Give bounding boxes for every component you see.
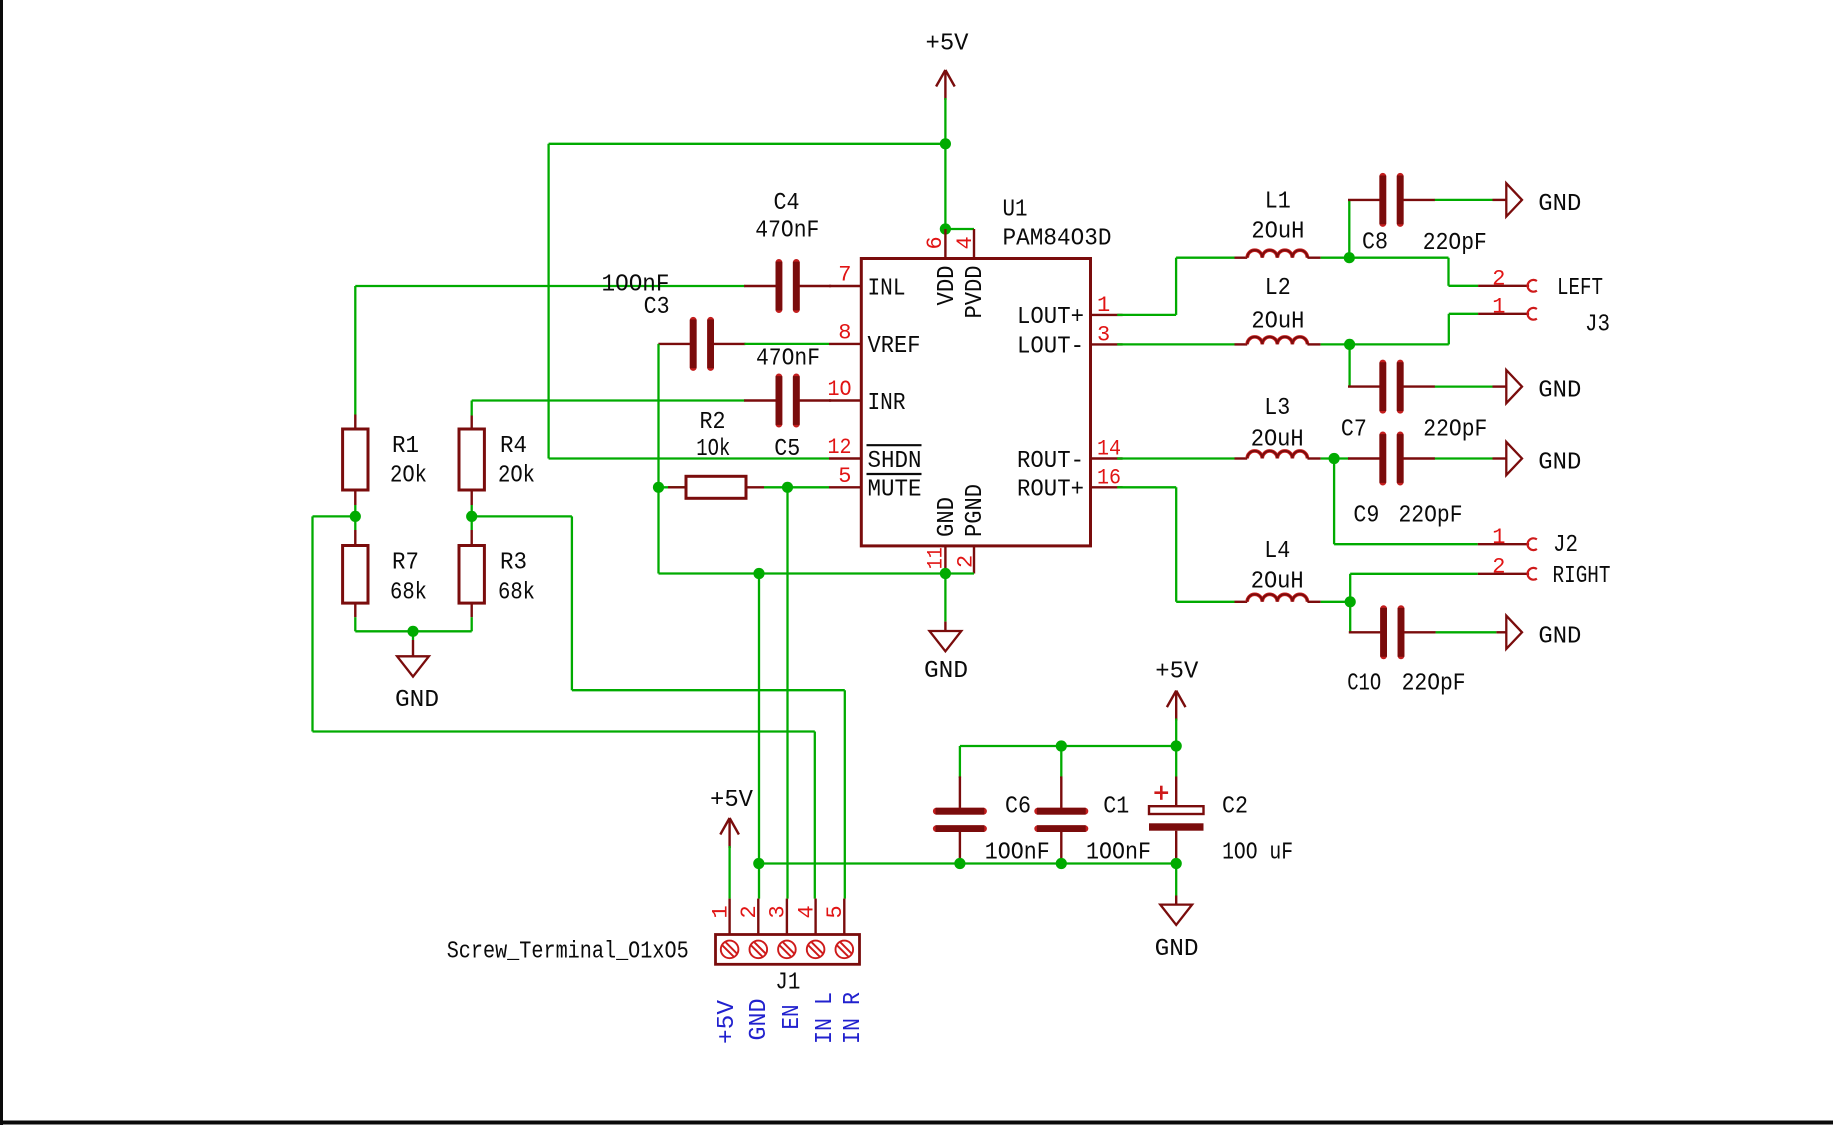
ground flag C8 xyxy=(1493,183,1523,216)
C1 reference label xyxy=(1103,793,1129,820)
wire RIGHT corner up xyxy=(1349,574,1351,602)
C10 value 220pF xyxy=(1402,671,1466,698)
resistor R1 xyxy=(343,415,368,517)
R4 reference label xyxy=(500,433,527,460)
svg-text:LOUT+: LOUT+ xyxy=(1017,304,1084,331)
svg-text:6: 6 xyxy=(923,236,948,249)
C5 reference label xyxy=(774,436,800,463)
svg-text:3: 3 xyxy=(1097,322,1110,347)
wire C7 drop xyxy=(1348,344,1350,386)
wire +5V rail to SHDN pullup (horizontal) xyxy=(549,143,946,145)
svg-text:C2: C2 xyxy=(1222,793,1248,820)
L2 reference label xyxy=(1265,275,1291,302)
wire C10 to GND flag xyxy=(1436,631,1497,633)
J1 pin 3 lead xyxy=(766,899,791,935)
wire drop to J1 pin 4 xyxy=(814,732,816,899)
svg-text:2: 2 xyxy=(737,905,762,918)
svg-text:2OuH: 2OuH xyxy=(1251,309,1304,336)
resistor R3 xyxy=(459,530,484,617)
svg-text:C4: C4 xyxy=(774,190,800,217)
svg-text:L4: L4 xyxy=(1264,538,1290,565)
capacitor C8 xyxy=(1348,176,1435,225)
junction R1/R7 node xyxy=(350,511,361,522)
wire R4 node right xyxy=(472,515,572,517)
U1 pin 5 MUTE xyxy=(829,464,922,504)
junction L2 output xyxy=(1344,339,1355,350)
C9 value 220pF xyxy=(1399,502,1463,529)
C8 reference label xyxy=(1362,229,1388,256)
svg-text:VDD: VDD xyxy=(934,266,961,306)
svg-text:ROUT-: ROUT- xyxy=(1017,448,1084,475)
op-amp U1 PAM8403D body xyxy=(861,259,1090,546)
wire C6 top drop xyxy=(959,746,961,778)
svg-text:GND: GND xyxy=(934,497,961,537)
U1 pin 16 ROUT+ xyxy=(1017,465,1123,503)
wire R1 node horizontal to IN R? (y=731) xyxy=(313,730,815,732)
svg-text:C1: C1 xyxy=(1103,793,1129,820)
svg-text:INL: INL xyxy=(868,275,906,302)
C2 GND label xyxy=(1155,936,1199,963)
power symbol +5V (bottom right) xyxy=(1155,659,1198,721)
connector J1 reference xyxy=(775,969,800,996)
svg-text:8: 8 xyxy=(838,320,851,345)
svg-text:EN: EN xyxy=(779,1005,806,1030)
wire MUTE to U1 xyxy=(788,486,830,488)
wire L2 junction right xyxy=(1350,343,1449,345)
svg-text:R7: R7 xyxy=(392,550,419,577)
svg-text:1: 1 xyxy=(1492,525,1505,550)
C3 value 100nF xyxy=(602,271,670,298)
svg-text:PGND: PGND xyxy=(962,484,989,537)
junction C1 bottom xyxy=(1056,858,1067,869)
wire R3 to GND node xyxy=(413,630,472,632)
junction C2 top xyxy=(1171,740,1182,751)
wire C8 drop xyxy=(1348,200,1350,258)
L3 value 20uH xyxy=(1251,427,1304,454)
svg-text:L3: L3 xyxy=(1264,395,1290,422)
wire ROUT- from pin xyxy=(1117,457,1234,459)
L4 reference label xyxy=(1264,538,1290,565)
svg-text:+5V: +5V xyxy=(710,787,753,814)
wire SHDN pullup vertical xyxy=(547,144,549,459)
wire +5V stem to junction xyxy=(944,98,946,144)
svg-text:C8: C8 xyxy=(1362,229,1388,256)
svg-text:R1: R1 xyxy=(392,433,419,460)
C8 GND label xyxy=(1538,191,1581,218)
U1 pin 4 PVDD xyxy=(953,229,989,319)
wire L3 to junction xyxy=(1321,457,1335,459)
wire L3 junction down xyxy=(1333,459,1335,545)
net label LEFT xyxy=(1557,275,1603,302)
J1 screw 3 xyxy=(778,941,796,959)
J1 value Screw_Terminal_01x05 xyxy=(447,939,689,966)
junction L4 output xyxy=(1345,596,1356,607)
C4 reference label xyxy=(774,190,800,217)
J1 net label EN xyxy=(779,1005,806,1030)
svg-text:1Ok: 1Ok xyxy=(696,436,730,463)
svg-text:5: 5 xyxy=(838,464,851,489)
wire LOUT+ up xyxy=(1175,258,1177,315)
C5 value 470nF xyxy=(756,345,820,372)
C7 value 220pF xyxy=(1423,417,1487,444)
wire LOUT+ to L1 xyxy=(1176,257,1235,259)
junction VDD/PVDD pins xyxy=(940,223,951,234)
junction GND rail / J1 pin2 xyxy=(753,858,764,869)
U1 value label PAM8403D xyxy=(1003,226,1112,253)
sheet border (left edge) xyxy=(0,0,3,1125)
inductor L1 xyxy=(1235,250,1321,258)
wire L2 to junction xyxy=(1321,343,1350,345)
svg-text:2Ok: 2Ok xyxy=(390,463,427,490)
connector J3 reference xyxy=(1585,312,1610,339)
wire LOUT+ from pin xyxy=(1117,314,1176,316)
svg-text:+5V: +5V xyxy=(1155,659,1198,686)
wire L4 to junction xyxy=(1321,601,1351,603)
wire to J3 pin2 xyxy=(1449,285,1479,287)
svg-text:1: 1 xyxy=(1097,293,1110,318)
svg-text:ROUT+: ROUT+ xyxy=(1017,477,1084,504)
junction L1 output xyxy=(1344,252,1355,263)
svg-text:68k: 68k xyxy=(498,580,535,607)
R3 reference label xyxy=(500,550,527,577)
svg-text:INR: INR xyxy=(868,390,906,417)
svg-text:SHDN: SHDN xyxy=(868,448,922,475)
wire C7 to GND flag xyxy=(1435,385,1493,387)
svg-text:R2: R2 xyxy=(700,409,726,436)
svg-text:7: 7 xyxy=(838,263,851,288)
svg-text:2: 2 xyxy=(954,555,979,568)
capacitor C5 xyxy=(744,376,831,425)
net label RIGHT xyxy=(1553,563,1611,590)
svg-text:PAM84O3D: PAM84O3D xyxy=(1003,226,1112,253)
C6 value 100nF xyxy=(985,839,1050,866)
resistor R4 xyxy=(459,416,484,517)
svg-text:J3: J3 xyxy=(1585,312,1610,339)
svg-text:GND: GND xyxy=(395,687,439,714)
wire to J2 pin2 xyxy=(1350,573,1478,575)
junction GND row / U1 pins xyxy=(940,568,951,579)
wire GND row under U1 xyxy=(659,572,975,574)
svg-text:1: 1 xyxy=(708,905,733,918)
R2 value 10k xyxy=(696,436,730,463)
connector J3 pin 1 xyxy=(1478,295,1537,320)
power symbol +5V (top) xyxy=(926,31,969,101)
L2 value 20uH xyxy=(1251,309,1304,336)
ground flag C10 xyxy=(1496,616,1522,649)
wire R7 bottom drop xyxy=(354,617,356,631)
wire to J3 pin1 xyxy=(1449,313,1478,315)
svg-text:22OpF: 22OpF xyxy=(1423,230,1487,257)
U1 pin 3 LOUT- xyxy=(1017,322,1123,360)
connector J2 reference xyxy=(1553,532,1578,559)
U1 pin 8 VREF xyxy=(829,320,921,360)
svg-text:J1: J1 xyxy=(775,969,800,996)
svg-text:R4: R4 xyxy=(500,433,527,460)
wire C1 top drop xyxy=(1060,746,1062,778)
svg-text:11: 11 xyxy=(924,547,949,569)
ground flag C9 xyxy=(1493,442,1523,475)
wire SHDN row xyxy=(549,457,829,459)
junction C1 top xyxy=(1056,740,1067,751)
J1 screw 1 xyxy=(721,941,739,959)
C6 reference label xyxy=(1005,793,1031,820)
ground divider GND xyxy=(397,640,429,677)
C4 value 470nF xyxy=(755,217,819,244)
svg-text:C7: C7 xyxy=(1341,417,1367,444)
svg-text:1OO uF: 1OO uF xyxy=(1222,839,1293,866)
svg-text:U1: U1 xyxy=(1003,197,1028,224)
wire INR row xyxy=(472,399,746,401)
wire LOUT- from pin xyxy=(1117,343,1234,345)
wire R4 node horizontal (y=690) xyxy=(572,689,845,691)
L1 reference label xyxy=(1265,189,1291,216)
svg-text:4: 4 xyxy=(794,905,819,918)
C7 GND label xyxy=(1538,378,1581,405)
junction R2 right / EN net xyxy=(782,482,793,493)
C8 value 220pF xyxy=(1423,230,1487,257)
C2 reference label xyxy=(1222,793,1248,820)
svg-text:L1: L1 xyxy=(1265,189,1291,216)
svg-text:LOUT-: LOUT- xyxy=(1017,334,1084,361)
svg-text:GND: GND xyxy=(1155,936,1199,963)
wire R3 bottom drop xyxy=(471,617,473,631)
junction R4/R3 node xyxy=(466,511,477,522)
U1 reference label xyxy=(1003,197,1028,224)
wire +5V rail (y=746) xyxy=(960,745,1176,747)
junction divider GND node xyxy=(407,626,418,637)
J1 net label +5V xyxy=(714,1000,741,1044)
wire C3-R2 vertical xyxy=(657,344,659,574)
svg-text:2: 2 xyxy=(1492,555,1505,580)
svg-text:C6: C6 xyxy=(1005,793,1031,820)
wire C2 GND stem xyxy=(1175,864,1177,896)
C9 GND label xyxy=(1538,450,1581,477)
junction +5V / VDD node xyxy=(940,138,951,149)
wire INL row xyxy=(355,285,745,287)
svg-text:GND: GND xyxy=(1538,378,1581,405)
C7 reference label xyxy=(1341,417,1367,444)
divider GND label xyxy=(395,687,439,714)
capacitor C2 (polarized) xyxy=(1149,777,1204,864)
U1 pin 6 VDD xyxy=(923,229,961,306)
inductor L3 xyxy=(1235,451,1321,459)
wire R4-R3 link xyxy=(471,516,473,530)
wire ROUT+ to L4 xyxy=(1176,601,1234,603)
J1 pin 4 lead xyxy=(794,899,819,935)
L4 value 20uH xyxy=(1251,568,1304,595)
J1 net label IN R xyxy=(840,992,867,1044)
wire EN vertical to J1 pin3 xyxy=(786,487,788,898)
svg-text:47OnF: 47OnF xyxy=(756,345,820,372)
wire drop to J1 pin 5 xyxy=(844,690,846,898)
svg-text:L2: L2 xyxy=(1265,275,1291,302)
svg-text:C9: C9 xyxy=(1353,502,1379,529)
capacitor C9 xyxy=(1348,434,1435,483)
wire L1 junction to LEFT corner xyxy=(1349,257,1448,259)
svg-text:C1O: C1O xyxy=(1347,671,1381,698)
wire ROUT+ from pin xyxy=(1117,486,1176,488)
wire divider GND stem xyxy=(412,631,414,640)
J1 screw 4 xyxy=(807,941,825,959)
wire GND rail (y=863.5) xyxy=(759,862,1176,864)
J1 pin 2 lead xyxy=(737,899,762,935)
wire C2 top drop xyxy=(1175,746,1177,777)
wire C8 to GND flag xyxy=(1435,199,1493,201)
resistor R2 xyxy=(659,476,788,498)
svg-text:4: 4 xyxy=(953,236,978,249)
resistor R7 xyxy=(343,530,368,617)
J1 screw 5 xyxy=(836,941,854,959)
svg-text:GND: GND xyxy=(1538,191,1581,218)
wire ROUT+ down xyxy=(1175,487,1177,602)
junction C2 bottom xyxy=(1171,858,1182,869)
U1 pin 11 GND xyxy=(924,497,961,574)
R7 reference label xyxy=(392,550,419,577)
wire +5V to J1 pin1 xyxy=(728,846,730,899)
svg-text:MUTE: MUTE xyxy=(868,477,922,504)
wire +5V bottom stem xyxy=(1175,719,1177,747)
inductor L2 xyxy=(1235,337,1321,345)
wire R1 node vertical (x=312) xyxy=(311,516,313,731)
wire VDD junction to PVDD pin xyxy=(945,228,974,230)
svg-text:2OuH: 2OuH xyxy=(1251,568,1304,595)
svg-text:RIGHT: RIGHT xyxy=(1553,563,1611,590)
svg-text:2OuH: 2OuH xyxy=(1251,219,1304,246)
svg-text:+5V: +5V xyxy=(926,31,969,58)
wire C9 to GND flag xyxy=(1435,457,1493,459)
U1 pin 14 ROUT- xyxy=(1017,437,1123,475)
svg-text:PVDD: PVDD xyxy=(962,266,989,319)
connector J2 pin 2 (RIGHT) xyxy=(1478,555,1537,580)
connector J2 pin 1 xyxy=(1478,525,1537,550)
svg-text:Screw_Terminal_O1xO5: Screw_Terminal_O1xO5 xyxy=(447,939,689,966)
svg-text:C3: C3 xyxy=(644,294,670,321)
J1 pin 5 lead xyxy=(823,899,848,935)
capacitor C10 xyxy=(1349,608,1436,657)
svg-text:22OpF: 22OpF xyxy=(1402,671,1466,698)
wire R1-R7 link xyxy=(354,516,356,530)
wire LEFT corner down xyxy=(1447,258,1449,286)
wire J3 pin1 corner up xyxy=(1448,314,1450,345)
L1 value 20uH xyxy=(1251,219,1304,246)
ground flag C7 xyxy=(1493,370,1523,403)
wire J1 pin2 GND vertical xyxy=(758,574,760,899)
C1 value 100nF xyxy=(1086,839,1151,866)
power symbol +5V (J1 pin1) xyxy=(710,787,753,848)
junction GND row / J1 pin2 net xyxy=(753,568,764,579)
svg-text:2OuH: 2OuH xyxy=(1251,427,1304,454)
svg-text:VREF: VREF xyxy=(868,333,921,360)
svg-text:J2: J2 xyxy=(1553,532,1578,559)
capacitor C6 xyxy=(936,776,985,863)
J1 net label IN L xyxy=(812,992,839,1044)
svg-text:R3: R3 xyxy=(500,550,527,577)
R1 reference label xyxy=(392,433,419,460)
C10 reference label xyxy=(1347,671,1381,698)
capacitor C1 xyxy=(1037,776,1086,863)
svg-text:+5V: +5V xyxy=(714,1000,741,1044)
svg-text:GND: GND xyxy=(746,999,773,1041)
svg-text:47OnF: 47OnF xyxy=(755,217,819,244)
svg-text:GND: GND xyxy=(924,658,968,685)
U1 pin 10 INR xyxy=(828,377,906,417)
U1 GND label xyxy=(924,658,968,685)
wire C9 link xyxy=(1334,457,1349,459)
C3 reference label xyxy=(644,294,670,321)
svg-text:1O: 1O xyxy=(828,377,852,402)
capacitor C7 xyxy=(1348,362,1435,411)
connector J3 pin 2 (LEFT) xyxy=(1478,267,1537,292)
svg-text:22OpF: 22OpF xyxy=(1399,502,1463,529)
ground U1 GND xyxy=(930,622,962,652)
svg-text:GND: GND xyxy=(1538,450,1581,477)
wire L1 to junction xyxy=(1321,257,1350,259)
svg-text:LEFT: LEFT xyxy=(1557,275,1603,302)
wire +5V down to VDD pins xyxy=(944,144,946,229)
capacitor C4 xyxy=(744,262,831,311)
R7 value 68k xyxy=(390,580,427,607)
sheet border (bottom edge) xyxy=(0,1121,1833,1125)
ground C2 GND xyxy=(1160,896,1192,925)
svg-text:22OpF: 22OpF xyxy=(1423,417,1487,444)
capacitor C3 xyxy=(658,320,745,369)
C2 value 100 uF xyxy=(1222,839,1293,866)
svg-text:IN L: IN L xyxy=(812,992,839,1044)
J1 pin 1 lead xyxy=(708,899,733,935)
wire C10 drop xyxy=(1349,602,1351,633)
svg-text:IN R: IN R xyxy=(840,992,867,1044)
R4 value 20k xyxy=(498,463,535,490)
svg-text:68k: 68k xyxy=(390,580,427,607)
svg-text:1: 1 xyxy=(1492,295,1505,320)
J1 screw 2 xyxy=(750,941,768,959)
wire VREF to U1 xyxy=(745,343,830,345)
svg-text:12: 12 xyxy=(828,435,852,460)
svg-text:2: 2 xyxy=(1492,267,1505,292)
U1 pin 7 INL xyxy=(829,263,906,303)
svg-text:GND: GND xyxy=(1538,623,1581,650)
wire R7 to GND node xyxy=(355,630,413,632)
R3 value 68k xyxy=(498,580,535,607)
junction L3 output xyxy=(1329,453,1340,464)
U1 pin 2 PGND xyxy=(954,484,990,574)
connector J1 body (screw terminal) xyxy=(716,935,860,965)
R2 reference label xyxy=(700,409,726,436)
R1 value 20k xyxy=(390,463,427,490)
J1 net label GND xyxy=(746,999,773,1041)
L3 reference label xyxy=(1264,395,1290,422)
wire GND stem under U1 xyxy=(944,574,946,622)
wire R1 node left xyxy=(313,515,356,517)
junction C6 bottom xyxy=(954,858,965,869)
junction R2 left / C3 net xyxy=(653,482,664,493)
wire INR drop to R4 xyxy=(471,401,473,416)
inductor L4 xyxy=(1235,594,1321,602)
wire INL drop to R1 xyxy=(354,286,356,415)
svg-text:3: 3 xyxy=(766,905,791,918)
wire to J2 pin1 xyxy=(1334,543,1478,545)
svg-text:2Ok: 2Ok xyxy=(498,463,535,490)
C10 GND label xyxy=(1538,623,1581,650)
C9 reference label xyxy=(1353,502,1379,529)
U1 pin 1 LOUT+ xyxy=(1017,293,1123,331)
U1 pin 12 SHDN xyxy=(828,435,922,475)
wire R4 node vertical (x=572) xyxy=(571,516,573,690)
svg-text:5: 5 xyxy=(823,905,848,918)
